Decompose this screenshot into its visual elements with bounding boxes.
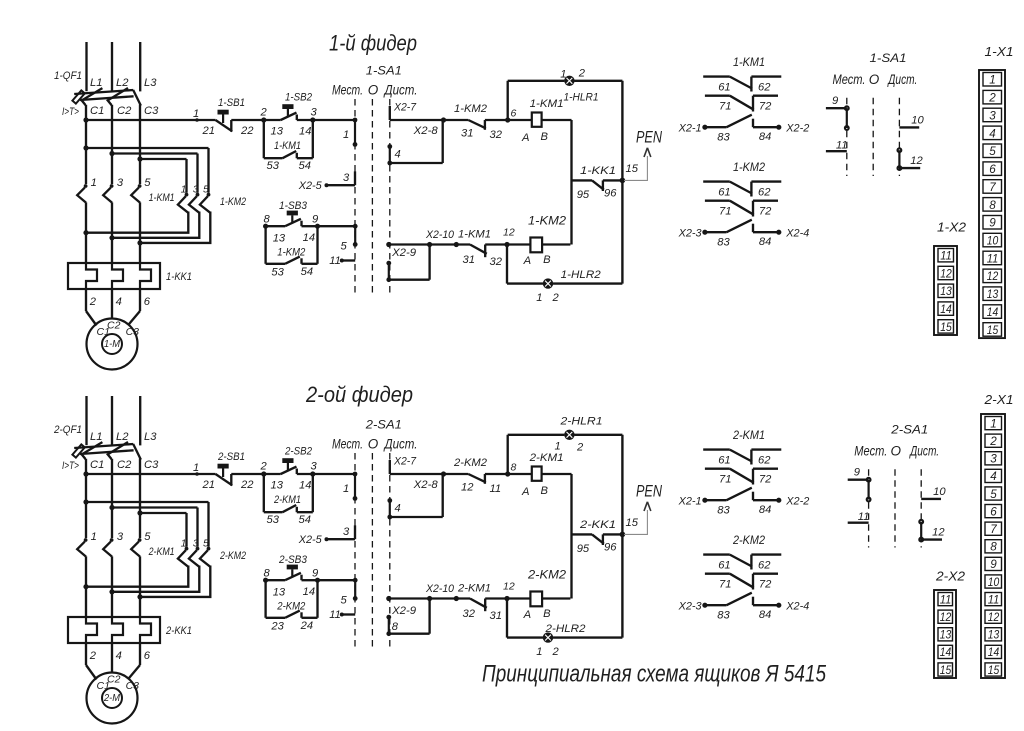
svg-text:1: 1 bbox=[91, 177, 97, 189]
svg-text:Принципиальная схема ящиков Я: Принципиальная схема ящиков Я 5415 bbox=[482, 661, 827, 688]
svg-text:13: 13 bbox=[988, 628, 1000, 642]
svg-text:2: 2 bbox=[260, 461, 268, 473]
svg-text:1: 1 bbox=[193, 108, 199, 120]
svg-text:1: 1 bbox=[91, 531, 97, 543]
svg-text:31: 31 bbox=[461, 128, 473, 140]
svg-text:6: 6 bbox=[511, 108, 517, 120]
svg-text:2: 2 bbox=[89, 650, 97, 662]
svg-text:X2-4: X2-4 bbox=[785, 601, 809, 613]
svg-text:31: 31 bbox=[490, 610, 502, 622]
svg-text:2: 2 bbox=[260, 107, 268, 119]
svg-text:11: 11 bbox=[836, 140, 848, 152]
svg-text:2-SB1: 2-SB1 bbox=[217, 451, 245, 463]
svg-text:X2-1: X2-1 bbox=[678, 496, 702, 508]
svg-text:2-X2: 2-X2 bbox=[935, 569, 966, 584]
svg-text:Дист.: Дист. bbox=[383, 437, 418, 452]
svg-text:84: 84 bbox=[759, 609, 771, 621]
svg-text:72: 72 bbox=[759, 579, 772, 591]
svg-text:9: 9 bbox=[854, 467, 860, 479]
svg-text:X2-8: X2-8 bbox=[413, 125, 439, 137]
svg-text:1-KM1: 1-KM1 bbox=[458, 229, 491, 241]
svg-text:6: 6 bbox=[144, 650, 151, 662]
svg-text:62: 62 bbox=[758, 82, 771, 94]
svg-text:L1: L1 bbox=[90, 431, 102, 443]
svg-text:X2-10: X2-10 bbox=[425, 583, 455, 595]
svg-text:84: 84 bbox=[759, 236, 771, 248]
svg-text:X2-8: X2-8 bbox=[413, 479, 439, 491]
svg-text:C3: C3 bbox=[144, 459, 159, 471]
svg-text:A: A bbox=[523, 255, 531, 267]
svg-text:2-KM1: 2-KM1 bbox=[148, 546, 175, 558]
svg-text:C1: C1 bbox=[90, 105, 104, 117]
svg-text:2-M: 2-M bbox=[103, 693, 121, 704]
svg-text:14: 14 bbox=[299, 480, 311, 492]
svg-text:1-KK1: 1-KK1 bbox=[166, 271, 192, 283]
svg-text:14: 14 bbox=[940, 645, 952, 659]
svg-text:2: 2 bbox=[89, 296, 97, 308]
svg-text:32: 32 bbox=[463, 608, 476, 620]
svg-text:PEN: PEN bbox=[636, 128, 663, 147]
svg-text:15: 15 bbox=[940, 320, 952, 334]
svg-text:11: 11 bbox=[329, 609, 341, 621]
svg-text:B: B bbox=[541, 485, 549, 497]
svg-text:X2-10: X2-10 bbox=[425, 229, 455, 241]
svg-text:11: 11 bbox=[858, 511, 870, 523]
svg-text:95: 95 bbox=[577, 189, 590, 201]
svg-text:2-KM1: 2-KM1 bbox=[529, 452, 564, 464]
svg-text:11: 11 bbox=[940, 592, 952, 606]
svg-text:8: 8 bbox=[264, 214, 271, 226]
svg-text:C2: C2 bbox=[117, 105, 132, 117]
svg-text:71: 71 bbox=[719, 474, 731, 486]
svg-text:2: 2 bbox=[552, 292, 560, 304]
svg-text:1: 1 bbox=[560, 69, 566, 81]
svg-text:X2-9: X2-9 bbox=[391, 247, 416, 259]
svg-text:B: B bbox=[543, 608, 551, 620]
svg-text:13: 13 bbox=[273, 587, 286, 599]
svg-text:1: 1 bbox=[989, 73, 996, 87]
svg-text:2-QF1: 2-QF1 bbox=[53, 424, 82, 436]
svg-text:21: 21 bbox=[202, 125, 215, 137]
svg-text:2: 2 bbox=[552, 646, 560, 658]
svg-text:1-KM1: 1-KM1 bbox=[149, 192, 175, 204]
svg-text:1: 1 bbox=[181, 538, 187, 550]
svg-text:14: 14 bbox=[303, 586, 315, 598]
svg-text:11: 11 bbox=[987, 251, 999, 265]
svg-text:2-KK1: 2-KK1 bbox=[579, 519, 616, 531]
svg-text:10: 10 bbox=[911, 115, 924, 127]
svg-text:5: 5 bbox=[144, 531, 151, 543]
svg-text:1-QF1: 1-QF1 bbox=[54, 70, 82, 82]
svg-text:X2-2: X2-2 bbox=[785, 123, 810, 135]
svg-text:L1: L1 bbox=[90, 77, 102, 89]
svg-text:X2-2: X2-2 bbox=[785, 496, 810, 508]
svg-text:3: 3 bbox=[117, 177, 124, 189]
svg-text:A: A bbox=[521, 486, 529, 498]
svg-text:14: 14 bbox=[303, 232, 315, 244]
svg-text:12: 12 bbox=[940, 266, 952, 280]
svg-text:10: 10 bbox=[987, 234, 999, 248]
svg-text:5: 5 bbox=[990, 487, 997, 501]
svg-text:5: 5 bbox=[341, 595, 348, 607]
svg-text:12: 12 bbox=[910, 155, 923, 167]
svg-text:9: 9 bbox=[312, 568, 318, 580]
svg-text:32: 32 bbox=[490, 256, 503, 268]
svg-text:3: 3 bbox=[343, 172, 350, 184]
svg-text:61: 61 bbox=[718, 455, 730, 467]
svg-text:X2-1: X2-1 bbox=[678, 123, 702, 135]
svg-text:13: 13 bbox=[987, 287, 999, 301]
svg-text:2-HLR2: 2-HLR2 bbox=[544, 623, 586, 635]
svg-text:О: О bbox=[869, 72, 880, 87]
svg-text:5: 5 bbox=[203, 184, 209, 196]
svg-text:X2-7: X2-7 bbox=[393, 456, 417, 468]
svg-text:8: 8 bbox=[989, 198, 996, 212]
svg-text:14: 14 bbox=[940, 302, 952, 316]
svg-text:96: 96 bbox=[604, 542, 617, 554]
svg-text:24: 24 bbox=[300, 620, 313, 632]
svg-text:1-X1: 1-X1 bbox=[985, 44, 1014, 59]
svg-text:22: 22 bbox=[240, 479, 254, 491]
svg-text:15: 15 bbox=[626, 163, 639, 175]
svg-text:C3: C3 bbox=[126, 680, 140, 692]
svg-text:10: 10 bbox=[933, 486, 946, 498]
svg-text:L3: L3 bbox=[144, 77, 157, 89]
svg-text:X2-3: X2-3 bbox=[678, 228, 703, 240]
svg-text:11: 11 bbox=[490, 483, 502, 495]
svg-text:Дист.: Дист. bbox=[383, 83, 418, 98]
svg-text:1: 1 bbox=[990, 416, 997, 430]
svg-text:C2: C2 bbox=[107, 320, 121, 332]
svg-text:PEN: PEN bbox=[636, 482, 663, 501]
svg-text:8: 8 bbox=[264, 568, 271, 580]
svg-text:13: 13 bbox=[273, 233, 286, 245]
svg-text:I>T>: I>T> bbox=[62, 106, 79, 118]
svg-text:1-HLR1: 1-HLR1 bbox=[564, 92, 599, 104]
svg-text:L3: L3 bbox=[144, 431, 157, 443]
svg-text:53: 53 bbox=[267, 160, 280, 172]
svg-text:61: 61 bbox=[718, 187, 730, 199]
svg-text:X2-5: X2-5 bbox=[298, 180, 323, 192]
svg-text:12: 12 bbox=[461, 482, 474, 494]
svg-text:12: 12 bbox=[988, 610, 1000, 624]
svg-text:53: 53 bbox=[267, 514, 280, 526]
svg-text:1-KM2: 1-KM2 bbox=[220, 196, 247, 208]
svg-text:14: 14 bbox=[987, 305, 999, 319]
svg-text:Мест.: Мест. bbox=[833, 72, 866, 87]
svg-text:6: 6 bbox=[989, 162, 996, 176]
svg-text:X2-4: X2-4 bbox=[785, 228, 809, 240]
svg-text:2-SA1: 2-SA1 bbox=[890, 423, 928, 437]
svg-text:1-KM1: 1-KM1 bbox=[733, 55, 765, 69]
svg-text:2-HLR1: 2-HLR1 bbox=[559, 416, 602, 428]
svg-text:6: 6 bbox=[144, 296, 151, 308]
svg-text:31: 31 bbox=[463, 254, 475, 266]
svg-text:C2: C2 bbox=[107, 674, 121, 686]
svg-text:C2: C2 bbox=[117, 459, 132, 471]
svg-text:12: 12 bbox=[503, 581, 515, 593]
svg-text:2-X1: 2-X1 bbox=[983, 392, 1013, 407]
svg-text:5: 5 bbox=[203, 538, 209, 550]
svg-text:54: 54 bbox=[301, 266, 313, 278]
svg-text:2: 2 bbox=[989, 434, 997, 448]
svg-text:О: О bbox=[368, 437, 379, 452]
svg-text:13: 13 bbox=[940, 628, 952, 642]
svg-text:11: 11 bbox=[940, 249, 952, 263]
svg-text:12: 12 bbox=[940, 610, 952, 624]
svg-text:13: 13 bbox=[271, 126, 284, 138]
svg-text:2-KM2: 2-KM2 bbox=[527, 568, 566, 582]
svg-text:2-SA1: 2-SA1 bbox=[365, 418, 402, 432]
svg-text:A: A bbox=[523, 609, 531, 621]
svg-text:1-SB1: 1-SB1 bbox=[218, 97, 245, 109]
svg-text:Дист.: Дист. bbox=[887, 72, 918, 87]
svg-text:12: 12 bbox=[987, 269, 999, 283]
svg-text:61: 61 bbox=[718, 560, 730, 572]
svg-text:83: 83 bbox=[717, 237, 730, 249]
svg-text:83: 83 bbox=[717, 610, 730, 622]
svg-text:62: 62 bbox=[758, 187, 771, 199]
svg-text:1-й фидер: 1-й фидер bbox=[329, 31, 417, 56]
svg-text:X2-9: X2-9 bbox=[391, 605, 416, 617]
svg-text:X2-3: X2-3 bbox=[678, 601, 703, 613]
svg-text:Мест.: Мест. bbox=[332, 83, 363, 98]
svg-text:95: 95 bbox=[577, 543, 590, 555]
svg-text:1-KM2: 1-KM2 bbox=[277, 247, 306, 259]
svg-text:8: 8 bbox=[392, 621, 399, 633]
svg-text:1-SA1: 1-SA1 bbox=[366, 64, 402, 78]
svg-text:2: 2 bbox=[576, 442, 584, 454]
svg-text:2-KM1: 2-KM1 bbox=[273, 494, 301, 506]
svg-text:3: 3 bbox=[311, 107, 318, 119]
svg-text:15: 15 bbox=[626, 517, 639, 529]
svg-text:4: 4 bbox=[116, 296, 122, 308]
svg-text:71: 71 bbox=[719, 206, 731, 218]
svg-text:13: 13 bbox=[271, 480, 284, 492]
svg-text:14: 14 bbox=[988, 645, 1000, 659]
svg-text:Мест.: Мест. bbox=[854, 444, 887, 459]
svg-text:61: 61 bbox=[718, 82, 730, 94]
svg-text:72: 72 bbox=[759, 474, 772, 486]
svg-text:4: 4 bbox=[990, 469, 997, 483]
svg-text:13: 13 bbox=[940, 284, 952, 298]
svg-text:62: 62 bbox=[758, 560, 771, 572]
svg-text:11: 11 bbox=[988, 592, 1000, 606]
svg-text:2-KM2: 2-KM2 bbox=[219, 550, 246, 562]
svg-text:84: 84 bbox=[759, 504, 771, 516]
svg-text:5: 5 bbox=[144, 177, 151, 189]
svg-text:8: 8 bbox=[990, 540, 997, 554]
svg-text:22: 22 bbox=[240, 125, 254, 137]
svg-text:3: 3 bbox=[311, 461, 318, 473]
svg-text:14: 14 bbox=[299, 126, 311, 138]
svg-text:1-KM2: 1-KM2 bbox=[454, 103, 488, 115]
svg-text:2-KM2: 2-KM2 bbox=[453, 457, 488, 469]
svg-text:B: B bbox=[543, 254, 551, 266]
svg-text:3: 3 bbox=[343, 526, 350, 538]
svg-text:Мест.: Мест. bbox=[332, 437, 363, 452]
svg-text:2: 2 bbox=[578, 68, 586, 80]
svg-text:1: 1 bbox=[181, 184, 187, 196]
svg-text:83: 83 bbox=[717, 505, 730, 517]
svg-text:9: 9 bbox=[312, 214, 318, 226]
svg-text:1: 1 bbox=[536, 646, 542, 658]
svg-text:15: 15 bbox=[987, 323, 999, 337]
svg-text:2-SB3: 2-SB3 bbox=[278, 554, 308, 566]
svg-text:23: 23 bbox=[270, 621, 284, 633]
svg-text:1-KM1: 1-KM1 bbox=[530, 98, 564, 110]
svg-text:72: 72 bbox=[759, 206, 772, 218]
svg-text:96: 96 bbox=[604, 188, 617, 200]
svg-text:A: A bbox=[521, 132, 529, 144]
svg-text:3: 3 bbox=[117, 531, 124, 543]
svg-text:15: 15 bbox=[988, 663, 1000, 677]
svg-text:1-M: 1-M bbox=[104, 339, 121, 350]
svg-text:4: 4 bbox=[395, 503, 401, 515]
svg-text:12: 12 bbox=[503, 227, 515, 239]
svg-text:6: 6 bbox=[990, 504, 997, 518]
svg-text:1-SA1: 1-SA1 bbox=[870, 51, 907, 65]
svg-text:О: О bbox=[891, 444, 902, 459]
svg-text:11: 11 bbox=[329, 255, 341, 267]
svg-text:54: 54 bbox=[299, 514, 311, 526]
svg-text:О: О bbox=[368, 83, 379, 98]
svg-text:1-KM2: 1-KM2 bbox=[733, 160, 765, 174]
svg-text:C3: C3 bbox=[144, 105, 159, 117]
svg-text:3: 3 bbox=[990, 452, 997, 466]
svg-text:3: 3 bbox=[193, 538, 199, 550]
svg-text:4: 4 bbox=[395, 149, 401, 161]
svg-text:1-SB3: 1-SB3 bbox=[279, 200, 308, 212]
svg-text:X2-7: X2-7 bbox=[393, 102, 417, 114]
svg-text:1-SB2: 1-SB2 bbox=[285, 92, 313, 104]
svg-text:2-KK1: 2-KK1 bbox=[165, 625, 192, 637]
svg-text:2-KM1: 2-KM1 bbox=[457, 583, 491, 595]
svg-text:B: B bbox=[541, 131, 549, 143]
svg-text:8: 8 bbox=[511, 462, 517, 474]
svg-text:62: 62 bbox=[758, 455, 771, 467]
svg-text:9: 9 bbox=[989, 216, 996, 230]
svg-text:84: 84 bbox=[759, 131, 771, 143]
svg-text:4: 4 bbox=[116, 650, 122, 662]
svg-text:5: 5 bbox=[989, 144, 996, 158]
svg-text:21: 21 bbox=[202, 479, 215, 491]
svg-text:1: 1 bbox=[343, 129, 349, 141]
svg-text:12: 12 bbox=[932, 527, 945, 539]
svg-text:71: 71 bbox=[719, 101, 731, 113]
svg-text:2-ой фидер: 2-ой фидер bbox=[305, 382, 413, 407]
svg-text:32: 32 bbox=[490, 129, 503, 141]
svg-text:2-SB2: 2-SB2 bbox=[284, 446, 313, 458]
svg-text:15: 15 bbox=[940, 663, 952, 677]
svg-text:Дист.: Дист. bbox=[909, 444, 940, 459]
svg-text:4: 4 bbox=[989, 126, 996, 140]
svg-text:1: 1 bbox=[343, 483, 349, 495]
svg-text:10: 10 bbox=[988, 575, 1000, 589]
svg-text:3: 3 bbox=[193, 184, 199, 196]
svg-text:72: 72 bbox=[759, 101, 772, 113]
svg-text:54: 54 bbox=[299, 160, 311, 172]
svg-text:C1: C1 bbox=[90, 459, 104, 471]
svg-text:L2: L2 bbox=[116, 431, 129, 443]
svg-text:1-KM2: 1-KM2 bbox=[528, 214, 566, 228]
svg-text:1-KM1: 1-KM1 bbox=[274, 140, 301, 152]
svg-text:1: 1 bbox=[193, 462, 199, 474]
svg-text:1-KK1: 1-KK1 bbox=[580, 165, 616, 177]
svg-text:L2: L2 bbox=[116, 77, 129, 89]
svg-text:3: 3 bbox=[989, 108, 996, 122]
svg-text:C3: C3 bbox=[126, 326, 140, 338]
svg-text:2-KM2: 2-KM2 bbox=[276, 601, 306, 613]
svg-text:5: 5 bbox=[341, 241, 348, 253]
svg-text:I>T>: I>T> bbox=[62, 460, 79, 472]
svg-text:1-X2: 1-X2 bbox=[937, 220, 967, 235]
svg-text:71: 71 bbox=[719, 579, 731, 591]
svg-text:53: 53 bbox=[271, 267, 284, 279]
svg-text:2: 2 bbox=[988, 91, 996, 105]
svg-text:X2-5: X2-5 bbox=[298, 534, 323, 546]
svg-text:1-HLR2: 1-HLR2 bbox=[561, 269, 602, 281]
svg-text:9: 9 bbox=[990, 557, 997, 571]
svg-text:83: 83 bbox=[717, 132, 730, 144]
svg-text:9: 9 bbox=[832, 95, 838, 107]
svg-text:2-KM1: 2-KM1 bbox=[732, 428, 765, 442]
svg-text:2-KM2: 2-KM2 bbox=[732, 533, 765, 547]
svg-text:1: 1 bbox=[536, 292, 542, 304]
svg-text:1: 1 bbox=[555, 441, 561, 453]
